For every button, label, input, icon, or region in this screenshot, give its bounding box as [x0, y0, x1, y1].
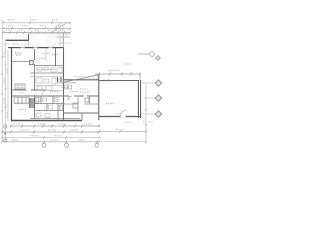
hallway walls: [30, 72, 64, 74]
label near fireplace: [19, 92, 24, 94]
porch step vertical: [28, 34, 30, 41]
garage door opening jambs: [104, 79, 108, 81]
bath fixtures cluster: [36, 67, 65, 108]
wing divider wall lower: [63, 80, 65, 120]
interior horizontal wall kitchen: [35, 65, 64, 67]
bed room labels: [50, 91, 78, 93]
main bottom wall: [11, 120, 82, 122]
left outer wall: [11, 48, 13, 122]
horizontal wall y96: [12, 95, 99, 97]
garage lower dimension line: [98, 130, 147, 133]
laundry boxes: [65, 85, 72, 89]
top dimension line A: [2, 21, 71, 24]
diagonal leader top: [53, 22, 68, 32]
dining-kitchen divider faint: [45, 48, 47, 62]
island dark verticals: [58, 77, 62, 83]
elevation diamond 3: [141, 111, 162, 118]
grid bubble B: [65, 143, 69, 147]
bottom dim text row 3: [30, 135, 62, 137]
bottom dim text row 2: [20, 129, 78, 131]
left grid bubble 2: [4, 139, 7, 142]
interior rooms cluster lower: [35, 96, 64, 120]
hall faint lines: [35, 70, 63, 91]
room label dining: [42, 53, 50, 55]
left grid bubble 1: [4, 125, 7, 128]
top dimension text row 2: [8, 25, 63, 27]
garage bottom wall label: [116, 113, 122, 115]
small diamond below callout: [156, 56, 161, 61]
counter edge under cabinets: [14, 103, 38, 105]
callout circle top right: [138, 52, 154, 57]
kitchen dim text row: [58, 42, 72, 44]
hall leader label: [80, 88, 88, 90]
garage left wall: [98, 74, 100, 120]
bottom wall inner line: [30, 118, 80, 120]
bottom dim text row 4: [12, 139, 84, 141]
bottom dimension line 3: [1, 136, 100, 139]
left dim rotated text: [4, 52, 7, 118]
bottom dim text row 1: [14, 123, 92, 125]
right dim rotated text: [143, 118, 145, 124]
right vertical dim line: [145, 84, 147, 144]
cabinet row: [14, 98, 39, 104]
garage lower dim text: [116, 122, 153, 130]
main top wall: [8, 47, 64, 49]
hatched roof area: [29, 34, 63, 48]
right wing outer wall: [63, 33, 65, 48]
garage top wall: [99, 80, 139, 82]
grid bubble A: [42, 143, 46, 147]
garage door arc: [120, 111, 126, 117]
window jamb ticks on top wall: [20, 46, 53, 49]
fireplace: [15, 84, 25, 89]
diagonal leader top second: [53, 23, 62, 30]
bottom dimension line 2: [1, 131, 100, 134]
interior horizontal wall dining: [12, 61, 35, 63]
bottom dimension line 1: [10, 125, 100, 128]
garage bottom wall: [99, 116, 141, 118]
top dimension text row 3: [6, 29, 64, 31]
mid wing top wall: [64, 79, 100, 81]
extra room marks: [62, 88, 90, 93]
kitchen divider wall: [55, 48, 57, 66]
grid bubble C: [95, 143, 99, 147]
ramp label: [74, 76, 82, 78]
small dim near kitchen top: [56, 34, 70, 37]
mid wing interior: [64, 96, 99, 113]
room label kitchen: [52, 54, 59, 56]
connector wall: [81, 113, 83, 121]
lower cluster fixtures: [36, 96, 63, 118]
garage label: [106, 103, 114, 105]
elevation diamond 2: [144, 95, 162, 102]
garage lowest dimension line: [98, 140, 147, 143]
garage dimension line: [95, 73, 141, 81]
garage dim text: [108, 64, 131, 71]
door gaps in y96 wall: [69, 95, 87, 97]
ramp diagonal: [62, 75, 100, 83]
garage right double wall: [137, 80, 139, 118]
room label nook: [37, 58, 45, 60]
porch front edge bar: [6, 39, 29, 41]
ramp tread ticks: [85, 75, 97, 80]
room label living: [15, 53, 22, 55]
interior vertical wall: [34, 49, 36, 119]
master label: [18, 109, 26, 111]
chimney block: [30, 61, 34, 65]
top dimension line C: [2, 31, 71, 34]
bottom dimension line 4: [1, 140, 100, 143]
top dimension text row 1: [8, 19, 58, 21]
elevation diamond 1: [141, 80, 162, 87]
dim drop line light: [59, 28, 61, 47]
stair block: [30, 98, 35, 108]
horizontal wall y90: [12, 89, 46, 91]
top dimension line B: [2, 27, 71, 30]
mid wing inner line: [64, 82, 77, 84]
middle wing bottom wall: [64, 112, 99, 114]
garage rear door opening: [120, 116, 126, 118]
left dim column: [1, 20, 8, 142]
dim text row below porch bar: [4, 43, 27, 45]
